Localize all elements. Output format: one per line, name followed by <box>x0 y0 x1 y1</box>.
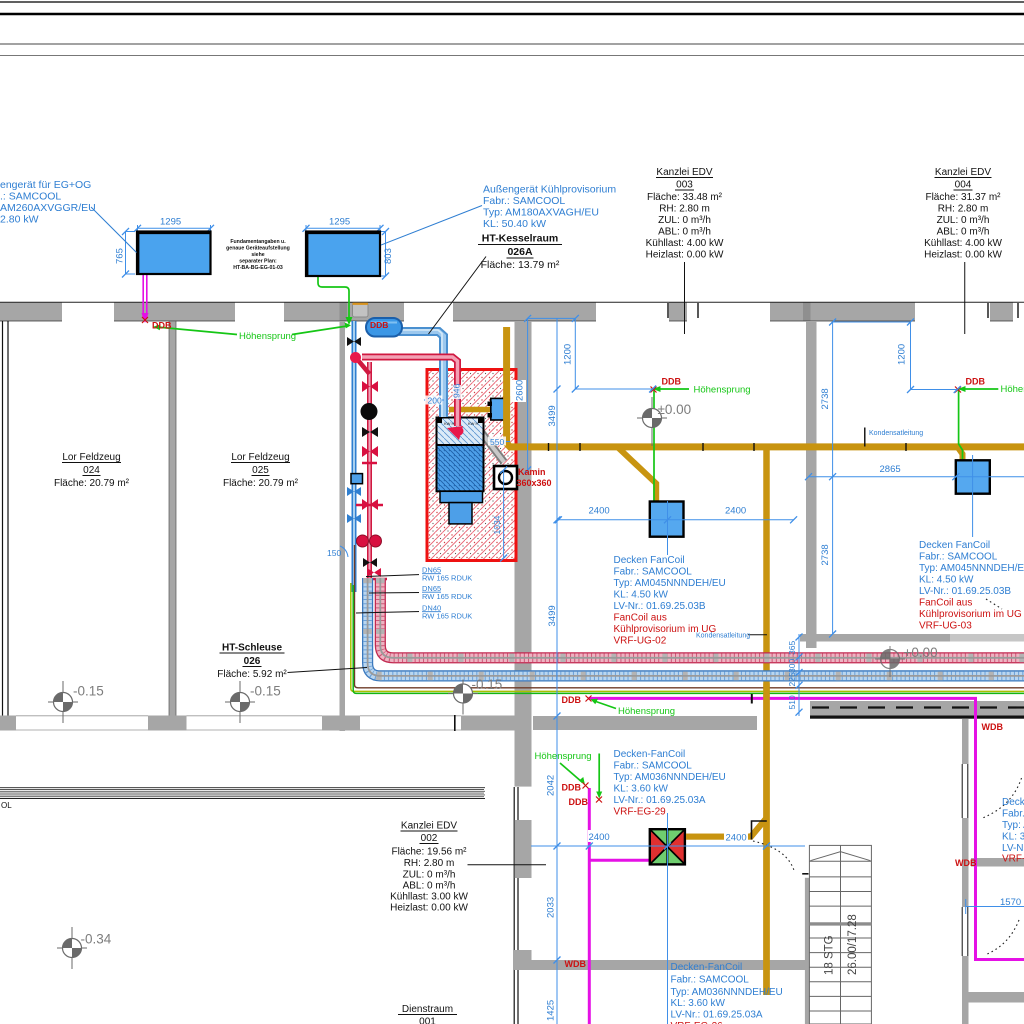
svg-text:Kühlprovisorium im UG: Kühlprovisorium im UG <box>919 609 1022 620</box>
svg-text:KL: 3.60 kW: KL: 3.60 kW <box>671 998 726 1009</box>
svg-text:Kondensatleitung: Kondensatleitung <box>696 633 750 640</box>
svg-text:2033: 2033 <box>546 897 557 918</box>
svg-text:±0.00: ±0.00 <box>658 402 692 417</box>
svg-text:Höhenspru: Höhenspru <box>1001 384 1024 395</box>
svg-text:2400: 2400 <box>589 832 610 843</box>
svg-text:Decken FanCoil: Decken FanCoil <box>1002 797 1024 808</box>
svg-text:VRF-UG-02: VRF-UG-02 <box>614 636 667 647</box>
svg-text:200: 200 <box>428 396 442 406</box>
svg-text:Typ: AM045NNNDEH/EU: Typ: AM045NNNDEH/EU <box>919 563 1024 574</box>
svg-text:1425: 1425 <box>546 1000 557 1021</box>
svg-text:Fläche: 20.79 m²: Fläche: 20.79 m² <box>223 478 299 489</box>
svg-text:KL: 3.60 kW: KL: 3.60 kW <box>614 784 669 795</box>
svg-text:Fläche: 33.48 m²: Fläche: 33.48 m² <box>647 192 723 203</box>
svg-text:VRF-EG-2: VRF-EG-2 <box>1002 854 1024 865</box>
svg-text:-0.34: -0.34 <box>81 932 112 947</box>
svg-text:Fabr.: SAMCOOL: Fabr.: SAMCOOL <box>1002 809 1024 820</box>
svg-text:LV-Nr.: 01.69.25.03B: LV-Nr.: 01.69.25.03B <box>919 586 1011 597</box>
svg-text:RW 165 RDUK: RW 165 RDUK <box>422 574 472 583</box>
svg-text:300: 300 <box>787 659 797 673</box>
svg-text:DDB: DDB <box>152 321 172 331</box>
svg-text:Decken FanCoil: Decken FanCoil <box>614 555 685 566</box>
svg-text:RW 165 RDUK: RW 165 RDUK <box>422 592 472 601</box>
svg-text:Kühllast: 3.00 kW: Kühllast: 3.00 kW <box>390 892 468 903</box>
svg-text:Dienstraum: Dienstraum <box>402 1004 453 1015</box>
svg-text:HT-BA-BG-EG-01-03: HT-BA-BG-EG-01-03 <box>233 265 283 271</box>
svg-text:3499: 3499 <box>547 405 558 426</box>
svg-text:KW H: KW H <box>444 421 455 426</box>
svg-text:Typ: AM180AXVAGH/EU: Typ: AM180AXVAGH/EU <box>483 207 599 219</box>
svg-text:genaue Geräteaufstellung: genaue Geräteaufstellung <box>226 246 290 252</box>
svg-text:LV-Nr.: 01.69: LV-Nr.: 01.69 <box>1002 843 1024 854</box>
svg-text:DDB: DDB <box>569 797 589 807</box>
svg-text:-0.15: -0.15 <box>250 684 281 699</box>
svg-text:Fläche: 13.79 m²: Fläche: 13.79 m² <box>481 259 560 271</box>
svg-text:025: 025 <box>252 465 269 476</box>
svg-text:Fläche: 20.79 m²: Fläche: 20.79 m² <box>54 478 130 489</box>
svg-text:LV-Nr.: 01.69.25.03B: LV-Nr.: 01.69.25.03B <box>614 601 706 612</box>
svg-text:1200: 1200 <box>897 344 908 365</box>
svg-text:Kühllast: 4.00 kW: Kühllast: 4.00 kW <box>646 238 724 249</box>
svg-text:KL: 4.50 kW: KL: 4.50 kW <box>919 575 974 586</box>
svg-text:Typ: AM045NNNDEH/EU: Typ: AM045NNNDEH/EU <box>614 578 726 589</box>
svg-text:+0.00: +0.00 <box>904 645 938 660</box>
svg-text:Außengerät Kühlprovisorium: Außengerät Kühlprovisorium <box>483 184 616 196</box>
svg-text:KW H: KW H <box>468 421 479 426</box>
svg-text:DDB: DDB <box>966 377 986 387</box>
svg-text:Kamin: Kamin <box>518 467 546 477</box>
svg-text:Fläche: 31.37 m²: Fläche: 31.37 m² <box>925 192 1001 203</box>
svg-text:KL: 3.60 kW: KL: 3.60 kW <box>1002 832 1024 843</box>
svg-text:Kanzlei EDV: Kanzlei EDV <box>401 821 457 832</box>
svg-text:-0.15: -0.15 <box>472 677 503 692</box>
svg-text:765: 765 <box>115 248 126 264</box>
svg-text:Kondensatleitung: Kondensatleitung <box>869 430 923 437</box>
svg-text:Fabr.: SAMCOOL: Fabr.: SAMCOOL <box>614 761 693 772</box>
svg-text:2738: 2738 <box>820 388 831 409</box>
svg-text:Typ: AM036NNNDEH/EU: Typ: AM036NNNDEH/EU <box>671 987 783 998</box>
svg-text:365: 365 <box>787 641 797 655</box>
svg-text:siehe: siehe <box>251 252 264 258</box>
svg-text:OL: OL <box>1 801 12 810</box>
svg-text:ZUL: 0 m³/h: ZUL: 0 m³/h <box>937 215 990 226</box>
svg-text:1295: 1295 <box>160 217 181 228</box>
svg-text:1034: 1034 <box>492 515 502 534</box>
svg-text:Lor Feldzeug: Lor Feldzeug <box>62 452 120 463</box>
svg-text:LV-Nr.: 01.69.25.03A: LV-Nr.: 01.69.25.03A <box>614 795 706 806</box>
svg-text:Fläche: 5.92 m²: Fläche: 5.92 m² <box>217 669 287 680</box>
svg-text:1295: 1295 <box>329 217 350 228</box>
svg-text:AM260AXVGGR/EU: AM260AXVGGR/EU <box>0 202 96 214</box>
svg-text:225: 225 <box>787 672 797 686</box>
svg-text:3499: 3499 <box>547 605 558 626</box>
svg-text:DDB: DDB <box>370 320 388 330</box>
svg-text:WDB: WDB <box>565 959 587 969</box>
svg-text:Höhensprung: Höhensprung <box>535 751 592 762</box>
svg-text:Decken-FanCoil: Decken-FanCoil <box>614 749 686 760</box>
svg-text:Kanzlei EDV: Kanzlei EDV <box>935 167 991 178</box>
svg-text:Typ: AM036NNNDEH/EU: Typ: AM036NNNDEH/EU <box>614 772 726 783</box>
svg-text:Fabr.: SAMCOOL: Fabr.: SAMCOOL <box>919 552 998 563</box>
svg-text:ZUL: 0 m³/h: ZUL: 0 m³/h <box>403 870 456 881</box>
svg-text:360x360: 360x360 <box>517 478 552 488</box>
svg-text:2400: 2400 <box>725 506 746 517</box>
svg-text:Fundamentangaben u.: Fundamentangaben u. <box>230 239 286 245</box>
svg-text:RH: 2.80 m: RH: 2.80 m <box>404 858 455 869</box>
svg-text:1200: 1200 <box>563 344 574 365</box>
svg-text:KL: 4.50 kW: KL: 4.50 kW <box>614 590 669 601</box>
svg-text:RH: 2.80 m: RH: 2.80 m <box>938 204 989 215</box>
svg-text:separater Plan:: separater Plan: <box>239 259 277 265</box>
svg-text:RW 165 RDUK: RW 165 RDUK <box>422 612 472 621</box>
svg-text:Lor Feldzeug: Lor Feldzeug <box>231 452 289 463</box>
svg-text:DDB: DDB <box>662 377 682 387</box>
svg-text:2865: 2865 <box>880 464 901 475</box>
svg-text:026: 026 <box>244 656 261 667</box>
svg-text:2042: 2042 <box>546 775 557 796</box>
svg-text:2600: 2600 <box>515 380 526 401</box>
svg-text:026A: 026A <box>507 246 533 258</box>
svg-text:ABL: 0 m³/h: ABL: 0 m³/h <box>403 881 456 892</box>
svg-text:Decken FanCoil: Decken FanCoil <box>919 540 990 551</box>
svg-text:engerät für EG+OG: engerät für EG+OG <box>0 179 91 191</box>
svg-text:FanCoil aus: FanCoil aus <box>614 613 667 624</box>
svg-text:2738: 2738 <box>820 544 831 565</box>
svg-text:Heizlast: 0.00 kW: Heizlast: 0.00 kW <box>390 903 468 914</box>
svg-text:Kühllast: 4.00 kW: Kühllast: 4.00 kW <box>924 238 1002 249</box>
svg-text:024: 024 <box>83 465 100 476</box>
svg-text:2400: 2400 <box>589 506 610 517</box>
svg-text:Kanzlei EDV: Kanzlei EDV <box>656 167 712 178</box>
svg-text:DDB: DDB <box>562 695 582 705</box>
svg-text:26.00/17.28: 26.00/17.28 <box>847 914 859 975</box>
svg-text:Heizlast: 0.00 kW: Heizlast: 0.00 kW <box>924 250 1002 261</box>
svg-text:Fabr.: SAMCOOL: Fabr.: SAMCOOL <box>483 195 565 207</box>
svg-text:KL: 50.40 kW: KL: 50.40 kW <box>483 218 546 230</box>
svg-text:VRF-UG-03: VRF-UG-03 <box>919 621 972 632</box>
svg-text:803: 803 <box>383 248 394 264</box>
svg-text:ABL: 0 m³/h: ABL: 0 m³/h <box>658 227 711 238</box>
svg-text:550: 550 <box>490 437 504 447</box>
svg-text:ZUL: 0 m³/h: ZUL: 0 m³/h <box>658 215 711 226</box>
svg-text:002: 002 <box>421 833 438 844</box>
svg-text:001: 001 <box>419 1017 436 1024</box>
svg-text:LV-Nr.: 01.69.25.03A: LV-Nr.: 01.69.25.03A <box>671 1010 763 1021</box>
svg-text:1570: 1570 <box>1000 897 1021 908</box>
svg-text:VRF-EG-29: VRF-EG-29 <box>614 807 667 818</box>
svg-text:FanCoil aus: FanCoil aus <box>919 598 972 609</box>
svg-text:WDB: WDB <box>982 722 1004 732</box>
svg-text:HT-Schleuse: HT-Schleuse <box>222 643 282 654</box>
svg-text:Fläche: 19.56 m²: Fläche: 19.56 m² <box>391 847 467 858</box>
svg-text:HT-Kesselraum: HT-Kesselraum <box>482 233 558 245</box>
svg-text:510: 510 <box>787 695 797 709</box>
svg-text:DDB: DDB <box>562 783 582 793</box>
svg-text:Höhensprung: Höhensprung <box>239 331 296 342</box>
svg-text:18 STG: 18 STG <box>824 935 836 975</box>
svg-text:Fabr.: SAMCOOL: Fabr.: SAMCOOL <box>671 975 750 986</box>
svg-text:Decken-FanCoil: Decken-FanCoil <box>671 962 743 973</box>
svg-text:.: SAMCOOL: .: SAMCOOL <box>0 191 61 203</box>
svg-text:Höhensprung: Höhensprung <box>694 385 751 396</box>
svg-text:Heizlast: 0.00 kW: Heizlast: 0.00 kW <box>646 250 724 261</box>
svg-text:-0.15: -0.15 <box>73 684 104 699</box>
svg-text:ABL: 0 m³/h: ABL: 0 m³/h <box>937 227 990 238</box>
svg-text:2400: 2400 <box>726 833 747 844</box>
svg-text:Höhensprung: Höhensprung <box>618 706 675 717</box>
svg-text:Typ: AM045NN: Typ: AM045NN <box>1002 820 1024 831</box>
svg-text:946: 946 <box>452 384 462 398</box>
svg-text:2.80 kW: 2.80 kW <box>0 214 39 226</box>
svg-text:004: 004 <box>955 180 972 191</box>
svg-text:WDB: WDB <box>955 858 977 868</box>
svg-text:150: 150 <box>327 548 341 558</box>
svg-text:Fabr.: SAMCOOL: Fabr.: SAMCOOL <box>614 567 693 578</box>
svg-text:003: 003 <box>676 180 693 191</box>
svg-text:RH: 2.80 m: RH: 2.80 m <box>659 204 710 215</box>
